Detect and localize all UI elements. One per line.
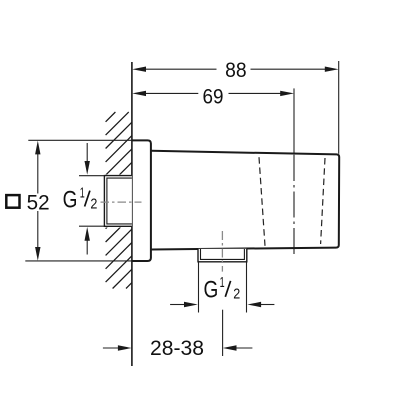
svg-text:1: 1 [220, 275, 225, 291]
square symbol [6, 195, 19, 208]
holder axis dash-dot through body [293, 155, 295, 258]
dimension 52 line [37, 153, 39, 249]
outlet fitting inner [201, 249, 245, 259]
dimension 52 arrow top [35, 141, 40, 155]
inlet centerline [101, 201, 142, 203]
svg-text:2: 2 [233, 287, 240, 303]
outlet extension left [198, 263, 200, 313]
dimension 28-38 arrow left [103, 347, 120, 349]
svg-text:52: 52 [27, 191, 50, 215]
outlet arrow right [260, 304, 275, 306]
outlet axis lower extension [222, 310, 224, 356]
outlet extension right [246, 263, 248, 313]
inlet extension bottom [79, 225, 104, 227]
hidden edge dashed left [259, 157, 265, 246]
outlet centerline [221, 231, 223, 272]
dimension 52 extension top [28, 139, 132, 141]
dimension 88 line [144, 68, 326, 70]
svg-text:G: G [204, 276, 219, 303]
svg-text:69: 69 [203, 84, 224, 108]
svg-text:2: 2 [90, 196, 97, 212]
inlet extension top [79, 175, 104, 177]
svg-text:1: 1 [80, 186, 85, 202]
dimension 28-38 arrow right [236, 347, 252, 349]
flange plate [132, 140, 151, 261]
hatch cutout behind inlet fitting [103, 175, 132, 228]
inlet fitting inner [107, 178, 132, 224]
inlet arrow bottom [86, 240, 88, 255]
hidden edge dashed right [321, 158, 325, 244]
outlet arrow left [170, 304, 185, 306]
svg-text:G: G [63, 187, 78, 214]
dimension 52 arrow bottom [35, 247, 40, 261]
inlet fitting outer [104, 176, 131, 227]
extension line for 88 (right) [338, 61, 340, 154]
svg-text:88: 88 [225, 58, 247, 82]
body outline [151, 151, 339, 250]
extension line for 69 (holder axis, upper solid) [293, 88, 295, 154]
dimension 69 arrow right [280, 91, 294, 96]
wall hatch section [106, 112, 132, 289]
inlet arrow top [86, 143, 88, 163]
dimension 69 arrow left [132, 91, 146, 96]
dimension 88 arrow right [325, 67, 339, 72]
wall face line [131, 62, 133, 366]
outlet fitting outer [198, 249, 247, 262]
dimension 52 extension bottom [25, 260, 132, 262]
dimension 88 arrow left [132, 67, 146, 72]
dimension 69 line [144, 92, 282, 94]
svg-text:28-38: 28-38 [150, 336, 204, 360]
